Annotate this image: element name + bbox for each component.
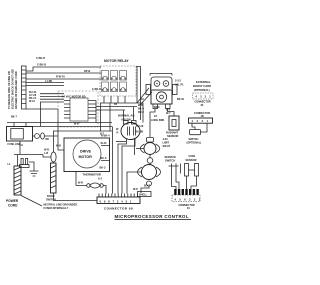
wire y93.7 bbox=[40, 93, 64, 95]
door switch plunger bbox=[51, 152, 56, 162]
relay right wire 2 bbox=[136, 67, 141, 121]
svg-text:W-7: W-7 bbox=[166, 112, 171, 115]
boost connector dashed box bbox=[193, 93, 214, 99]
svg-text:BU-7: BU-7 bbox=[144, 185, 150, 188]
svg-text:W-B: W-B bbox=[56, 145, 61, 148]
wire y85.5 bbox=[26, 85, 64, 87]
wire bowtie left bbox=[136, 148, 144, 150]
motor left entry wire bbox=[58, 127, 64, 151]
svg-text:SW-97: SW-97 bbox=[163, 145, 171, 148]
relay contact 2A bbox=[102, 82, 109, 92]
relay bottom stubs bbox=[104, 96, 125, 103]
pressure switch bumps bbox=[124, 121, 129, 125]
plunger feed wire bbox=[53, 131, 55, 152]
motor relay dashed box bbox=[100, 66, 136, 96]
svg-text:CONNECTOR 98: CONNECTOR 98 bbox=[104, 207, 133, 211]
water valve body bbox=[151, 90, 172, 104]
valve diag wire 1 bbox=[137, 88, 149, 103]
svg-text:MOTOR: MOTOR bbox=[79, 155, 93, 159]
wire valve to limit sw bbox=[150, 109, 155, 138]
svg-text:R-W-7A: R-W-7A bbox=[56, 76, 65, 79]
drive motor enclosure bbox=[64, 138, 110, 172]
valve feet wires bbox=[168, 109, 175, 117]
svg-text:(OPTIONAL): (OPTIONAL) bbox=[187, 142, 202, 145]
pressure switch body bbox=[121, 123, 140, 140]
svg-text:COIN: COIN bbox=[189, 154, 196, 158]
svg-text:W-B: W-B bbox=[78, 182, 83, 185]
svg-text:DRIVE: DRIVE bbox=[80, 150, 92, 154]
svg-text:THERMISTOR: THERMISTOR bbox=[83, 173, 101, 177]
wire filter to plug bbox=[33, 135, 59, 137]
svg-text:MICROPROCESSOR CONTROL: MICROPROCESSOR CONTROL bbox=[115, 214, 189, 219]
coin sensor prong 1 bbox=[185, 164, 189, 177]
svg-text:BK: BK bbox=[46, 138, 50, 141]
harness labels bbox=[29, 91, 37, 103]
svg-text:SWITCH: SWITCH bbox=[165, 158, 175, 162]
thermistor RT1 bbox=[87, 183, 104, 188]
plug node circle bbox=[35, 134, 40, 139]
relay contact 1B bbox=[111, 71, 118, 81]
svg-text:C-BK-R: C-BK-R bbox=[92, 88, 101, 91]
motor terminal ticks bbox=[101, 146, 110, 161]
pump lobes bbox=[138, 167, 161, 177]
relay contact 2B bbox=[111, 82, 118, 92]
wire collector 2 bbox=[96, 106, 137, 108]
valve center dot bbox=[160, 95, 164, 99]
bus line 1 bbox=[7, 122, 112, 124]
svg-text:DP12: DP12 bbox=[84, 70, 91, 73]
wire C-BK-B bbox=[26, 67, 101, 71]
relay contact 1C bbox=[120, 71, 127, 81]
valve center circle bbox=[156, 92, 166, 102]
wire relay to bus1 bbox=[100, 103, 102, 131]
bus line 2 bbox=[20, 126, 112, 128]
pump left wire bbox=[127, 172, 142, 194]
svg-text:0 9 8 7 2 4 3 1: 0 9 8 7 2 4 3 1 bbox=[100, 199, 133, 203]
motor terminal labels bbox=[100, 133, 108, 170]
svg-text:W-12: W-12 bbox=[29, 100, 36, 103]
shell terminal bbox=[138, 192, 152, 197]
svg-text:BU-6: BU-6 bbox=[101, 157, 107, 160]
svg-text:W-P: W-P bbox=[133, 188, 138, 191]
svg-text:BOOST CARD: BOOST CARD bbox=[193, 84, 211, 88]
wire sw drop left bbox=[118, 139, 127, 194]
wire relay to bus2 bbox=[109, 103, 111, 131]
valve coil circle 2 bbox=[163, 81, 169, 87]
svg-text:(OPTIONAL): (OPTIONAL) bbox=[194, 88, 210, 92]
door switch hatch bbox=[51, 166, 57, 189]
wire to oval bbox=[116, 141, 126, 143]
service switch wires bbox=[172, 178, 180, 190]
wire y99.2 bbox=[40, 98, 64, 100]
wire y96.5 bbox=[40, 96, 64, 98]
svg-text:4 3 2 1: 4 3 2 1 bbox=[192, 119, 210, 123]
connector 98 ticks bbox=[99, 194, 137, 198]
wire R-W-7A b bbox=[26, 78, 101, 80]
ground wire bbox=[29, 162, 34, 171]
svg-text:EXTERNAL: EXTERNAL bbox=[196, 80, 211, 84]
svg-text:VAL P1: VAL P1 bbox=[175, 84, 184, 87]
harness terminal strip bbox=[22, 66, 27, 109]
connector 98 body bbox=[97, 197, 140, 204]
drive motor M1 bbox=[73, 140, 101, 168]
filter top wires bbox=[14, 123, 26, 127]
svg-text:SENSOR: SENSOR bbox=[167, 134, 178, 138]
wire cluster drop bbox=[40, 102, 42, 127]
svg-text:SHELL: SHELL bbox=[139, 194, 148, 197]
ground symbol bbox=[30, 171, 39, 176]
valve feet bbox=[153, 104, 158, 109]
connector 16 pins bbox=[174, 189, 199, 195]
coin sensor bar bbox=[189, 169, 195, 171]
IC pins right bbox=[88, 101, 96, 119]
svg-text:BU-2: BU-2 bbox=[138, 111, 144, 114]
labels near radiant sensor bbox=[138, 104, 171, 115]
wire R-W-7A bbox=[26, 72, 101, 74]
water valve coil top bbox=[151, 77, 172, 89]
svg-text:BK-7: BK-7 bbox=[11, 116, 17, 119]
strip rungs bbox=[22, 70, 27, 104]
svg-text:4 3 2 1: 4 3 2 1 bbox=[196, 95, 212, 99]
wire y102 bbox=[40, 101, 64, 103]
svg-text:NORMAL AQ: NORMAL AQ bbox=[118, 114, 134, 118]
svg-text:L-B: L-B bbox=[44, 152, 48, 155]
svg-text:SENSOR: SENSOR bbox=[186, 158, 197, 162]
motor bottom wire bbox=[75, 172, 77, 186]
svg-text:A-2: A-2 bbox=[98, 178, 103, 181]
svg-text:A/B SW: A/B SW bbox=[121, 118, 131, 122]
wire y82.5 bbox=[26, 82, 64, 84]
door switch out wire bbox=[54, 193, 98, 201]
relay bottom collector bbox=[100, 102, 137, 104]
noise filter box bbox=[7, 127, 33, 142]
svg-text:POWER: POWER bbox=[6, 199, 19, 203]
IC U1 bbox=[70, 98, 88, 121]
svg-text:W-23: W-23 bbox=[101, 142, 108, 145]
svg-text:SWITCH: SWITCH bbox=[46, 199, 56, 202]
pump bottom circle bbox=[147, 181, 152, 186]
radiant sensor inner bbox=[172, 120, 176, 127]
svg-text:WASHER W/ DAMAGED CORD: WASHER W/ DAMAGED CORD bbox=[14, 71, 18, 109]
warning note (rotated) bbox=[7, 69, 18, 109]
svg-text:B-7: B-7 bbox=[100, 133, 105, 136]
door switch body bbox=[51, 163, 57, 193]
connector 18 wires bbox=[192, 123, 207, 132]
svg-text:C-BK-R: C-BK-R bbox=[36, 57, 45, 60]
thermistor wires bbox=[76, 186, 106, 194]
plug node ellipse bbox=[41, 133, 45, 139]
plug base bbox=[20, 165, 30, 168]
relay right wire bbox=[136, 66, 138, 103]
water valve ear right bbox=[173, 85, 178, 95]
wire x134.5 bbox=[134, 138, 136, 155]
svg-text:ELECTRIC SHOCK DO NOT USE: ELECTRIC SHOCK DO NOT USE bbox=[11, 69, 15, 109]
svg-text:FUSED INTERNALLY: FUSED INTERNALLY bbox=[44, 207, 69, 210]
wire oval feed bbox=[137, 103, 143, 123]
oval feed stubs bbox=[124, 107, 134, 121]
stem wires bbox=[149, 155, 151, 165]
control board dashed box bbox=[58, 91, 98, 127]
coin sensor prong 2 bbox=[195, 164, 199, 177]
pump bottom wire bbox=[141, 186, 149, 193]
svg-text:2-3-2: 2-3-2 bbox=[175, 80, 181, 83]
connector 18 loop bbox=[190, 130, 201, 135]
plug feed wire bbox=[17, 155, 19, 167]
pointer line bbox=[21, 196, 42, 207]
noise filter inner bbox=[11, 129, 23, 140]
filter bottom wire bbox=[19, 141, 21, 155]
relay contact 1A bbox=[102, 71, 109, 81]
IC pins left bbox=[64, 101, 70, 119]
radiant sensor F1 bbox=[169, 116, 179, 130]
svg-text:LONG BRK: LONG BRK bbox=[151, 119, 165, 122]
mid small circle bbox=[147, 158, 153, 164]
relay contact 2C bbox=[120, 82, 127, 92]
external boost card labels bbox=[193, 80, 211, 92]
wire bus right of motor bbox=[112, 127, 114, 194]
valve diag wire 2 bbox=[140, 92, 152, 105]
limit switch lobes bbox=[140, 144, 160, 153]
svg-text:R: R bbox=[117, 132, 119, 135]
svg-text:MOTOR RELAY: MOTOR RELAY bbox=[104, 59, 129, 63]
limit switch body bbox=[144, 143, 156, 155]
plug prong 1 bbox=[21, 159, 23, 165]
limit sw labels bbox=[163, 138, 171, 148]
svg-text:CORD: CORD bbox=[8, 204, 18, 208]
pressure switch contacts bbox=[128, 127, 136, 136]
pin rail bbox=[95, 101, 97, 123]
valve coil circle 1 bbox=[154, 81, 160, 87]
svg-text:M-97: M-97 bbox=[74, 123, 80, 126]
water valve ear left bbox=[146, 85, 151, 95]
svg-text:C-BK-B: C-BK-B bbox=[37, 64, 46, 67]
neutral wire bbox=[14, 155, 51, 158]
svg-text:TO REDUCE RISK OF FIRE OR: TO REDUCE RISK OF FIRE OR bbox=[7, 71, 11, 109]
coin sensor wires bbox=[187, 176, 197, 189]
svg-text:BK-W: BK-W bbox=[177, 98, 184, 101]
svg-text:4 5 6 3 2 1: 4 5 6 3 2 1 bbox=[175, 197, 202, 201]
limit switch top cap bbox=[147, 138, 154, 143]
svg-text:BK-3: BK-3 bbox=[100, 167, 106, 170]
svg-text:SERVICE: SERVICE bbox=[165, 155, 177, 159]
wire collector 3 bbox=[96, 109, 125, 111]
title underline bbox=[115, 219, 192, 221]
pump body bbox=[142, 165, 157, 180]
bus line 3 bbox=[53, 130, 112, 132]
valve top bracket bbox=[150, 74, 172, 76]
wire sw drop right bbox=[122, 139, 135, 194]
wire y109 wrap down bbox=[26, 109, 58, 127]
connector 16 box bbox=[172, 195, 200, 202]
svg-text:BRN: BRN bbox=[154, 106, 160, 109]
service switch S1 bbox=[169, 164, 181, 178]
power cord body bbox=[14, 166, 21, 195]
plug prong 2 bbox=[26, 159, 28, 165]
connector 18 box bbox=[189, 118, 213, 123]
